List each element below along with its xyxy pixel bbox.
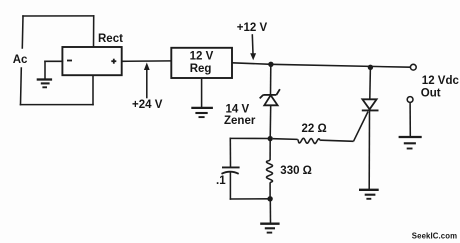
svg-text:.1: .1 xyxy=(216,175,226,187)
svg-text:12 Vdc: 12 Vdc xyxy=(422,75,460,87)
ground (rectifier) xyxy=(37,80,52,88)
wire: junction to zener xyxy=(270,64,272,94)
wire: rectifier negative to ground xyxy=(45,61,62,79)
rectifier plus terminal xyxy=(111,59,116,64)
zener diode D1 14 V xyxy=(260,89,280,105)
svg-text:Rect: Rect xyxy=(98,33,123,45)
wire: zener to RC junction xyxy=(269,105,272,138)
+12 V arrow xyxy=(250,34,256,60)
ground (SCR) xyxy=(359,190,379,199)
node: zener / RC junction xyxy=(268,136,273,141)
regulator box U1 12 V Reg xyxy=(171,48,232,78)
ground (regulator) xyxy=(191,108,213,117)
svg-text:330 Ω: 330 Ω xyxy=(280,165,312,177)
wire: SCR gate lead xyxy=(354,112,369,142)
wire: junction to capacitor xyxy=(230,138,270,166)
resistor R1 22 ohm xyxy=(273,138,354,143)
wire: bottom junction to ground xyxy=(269,199,271,223)
terminal: output return xyxy=(407,97,413,103)
SCR Q1 xyxy=(362,67,379,189)
rectifier box Rect xyxy=(62,47,121,75)
ground (output) xyxy=(399,137,422,149)
+24 V arrow xyxy=(144,63,150,99)
svg-text:Out: Out xyxy=(421,87,441,99)
ground (bottom) xyxy=(260,224,279,233)
wire: AC source loop xyxy=(21,16,94,105)
rectifier minus terminal xyxy=(67,60,72,62)
svg-text:22 Ω: 22 Ω xyxy=(302,123,327,135)
capacitor C1 .1 xyxy=(222,167,240,173)
wire: regulator output to 12 Vdc terminal xyxy=(232,63,410,67)
wire: capacitor to bottom junction xyxy=(230,173,270,199)
node: bottom junction xyxy=(267,196,272,201)
resistor R2 330 ohm xyxy=(267,139,273,199)
svg-text:14 V: 14 V xyxy=(226,103,250,115)
svg-text:12 V: 12 V xyxy=(190,51,214,63)
wire: rectifier + to regulator xyxy=(122,60,172,62)
node: SCR anode junction xyxy=(368,65,373,70)
svg-text:Ac: Ac xyxy=(13,54,28,66)
wire: return terminal to ground xyxy=(409,103,411,137)
svg-text:SeekIC.com: SeekIC.com xyxy=(412,232,457,241)
svg-text:+24 V: +24 V xyxy=(132,99,163,111)
svg-text:+12 V: +12 V xyxy=(237,22,268,34)
svg-text:Zener: Zener xyxy=(224,115,256,127)
wire: regulator to ground xyxy=(201,78,203,107)
terminal: 12 Vdc out xyxy=(410,64,416,70)
svg-text:Reg: Reg xyxy=(190,63,212,75)
node: regulator output / zener junction xyxy=(268,62,273,67)
